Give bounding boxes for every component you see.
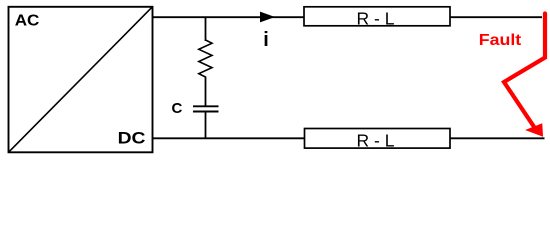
converter block U1 (AC/DC) [9, 7, 153, 153]
svg-text:DC: DC [118, 129, 146, 147]
capacitor C1 bottom plate [193, 111, 219, 113]
resistor R1 (zigzag) [199, 40, 212, 77]
svg-text:i: i [263, 29, 269, 51]
svg-text:C: C [172, 100, 183, 117]
wire top: converter to R-L box [153, 16, 305, 18]
svg-text:AC: AC [15, 11, 40, 29]
load R-L bottom (box) [305, 129, 451, 149]
capacitor C1 top plate [193, 105, 219, 107]
current arrow [261, 12, 274, 21]
wire: snubber branch top lead [205, 17, 207, 41]
svg-text:R - L: R - L [357, 9, 395, 29]
svg-text:Fault: Fault [479, 31, 522, 49]
wire bottom: converter to R-L box [153, 137, 305, 139]
fault arrow (red bolt) [504, 14, 545, 137]
converter diagonal [9, 7, 152, 152]
wire bottom right: R-L box to fault point [450, 137, 545, 139]
wire: resistor to capacitor [205, 77, 207, 107]
wire top right: R-L box to fault point [450, 16, 542, 18]
svg-text:R - L: R - L [357, 131, 395, 151]
wire: capacitor bottom lead [205, 112, 207, 140]
load R-L top (box) [304, 7, 450, 26]
